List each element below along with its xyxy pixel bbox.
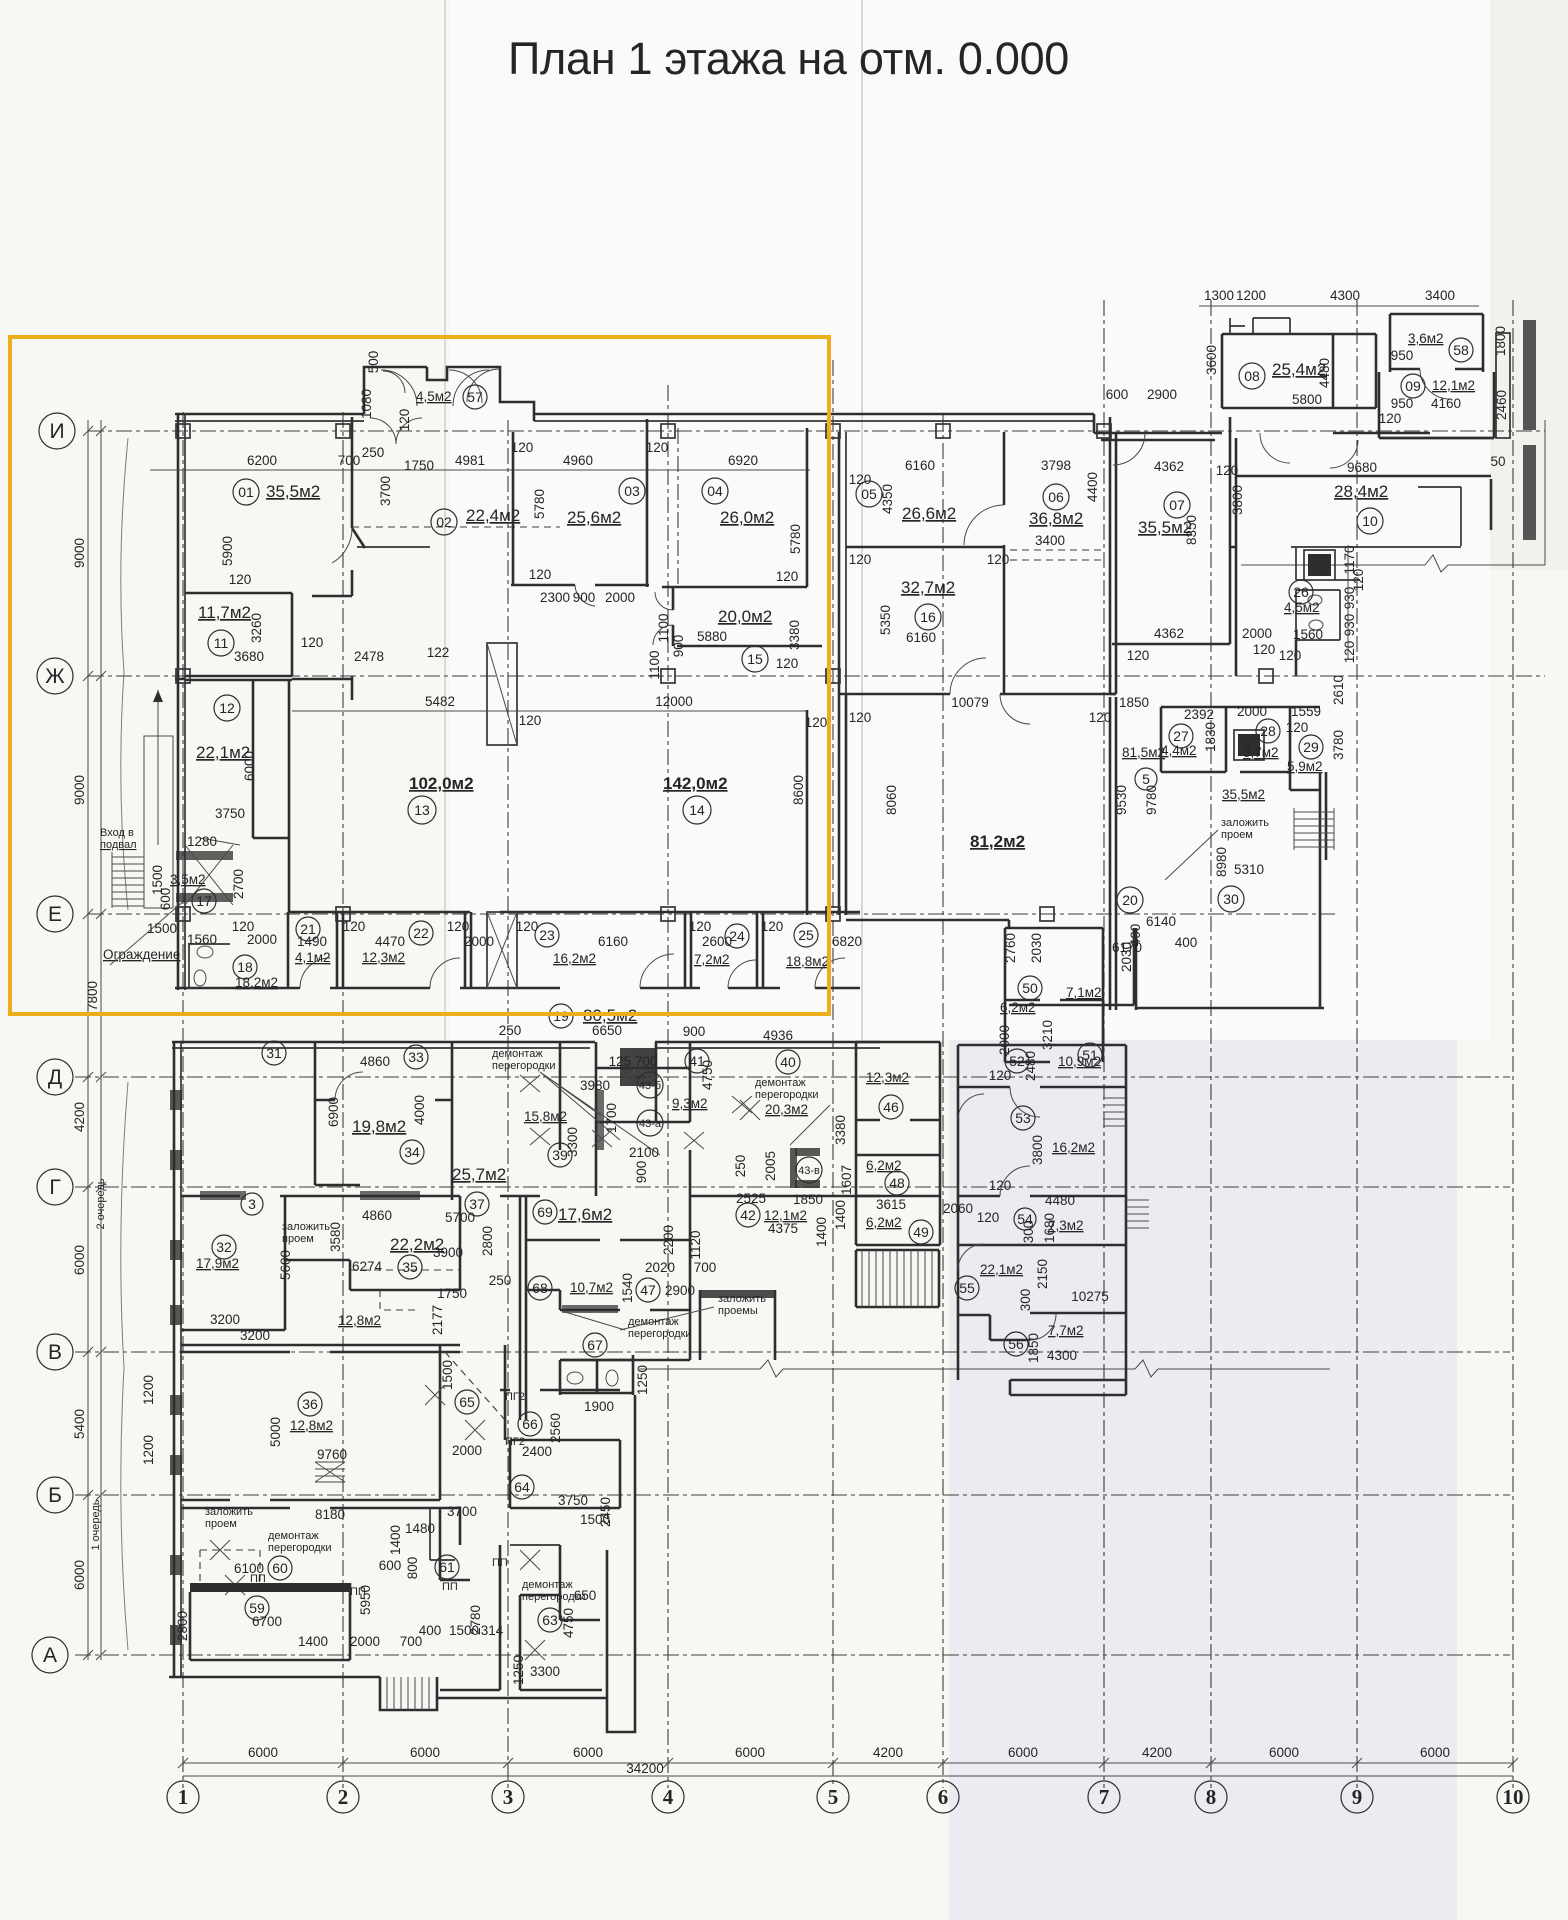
- axis circle В: [37, 1334, 73, 1370]
- wing inner wall x690: [690, 1042, 880, 1196]
- svg-text:16,2м2: 16,2м2: [1052, 1140, 1095, 1155]
- svg-text:120: 120: [761, 919, 784, 934]
- axis 1 line: [182, 412, 184, 1788]
- room 01 right wall: [352, 417, 365, 596]
- room 20 labels: [1117, 887, 1143, 913]
- bottom wall of rooms 16/06: [839, 693, 1116, 696]
- room 33 labels: [404, 1045, 428, 1069]
- svg-text:перегородки: перегородки: [755, 1089, 819, 1101]
- axis 5 line: [832, 360, 834, 1788]
- svg-text:36,8м2: 36,8м2: [1029, 509, 1083, 528]
- svg-text:1250: 1250: [635, 1365, 650, 1395]
- svg-text:2000: 2000: [605, 590, 635, 605]
- svg-text:35,5м2: 35,5м2: [1222, 787, 1265, 802]
- svg-text:6650: 6650: [592, 1023, 622, 1038]
- door arcs lower right block: [958, 1087, 1056, 1340]
- svg-text:10275: 10275: [1071, 1289, 1109, 1304]
- room 04 labels: [702, 478, 728, 504]
- svg-text:26: 26: [1293, 584, 1309, 600]
- svg-text:09: 09: [1405, 378, 1421, 394]
- svg-text:6170: 6170: [1112, 940, 1142, 955]
- svg-text:заложить: заложить: [282, 1221, 330, 1233]
- svg-text:36: 36: [302, 1396, 318, 1412]
- svg-text:34200: 34200: [626, 1761, 664, 1776]
- svg-text:23: 23: [539, 927, 555, 943]
- axis circle Г: [37, 1169, 73, 1205]
- room 61 walls: [440, 1508, 500, 1690]
- svg-text:1400: 1400: [298, 1634, 328, 1649]
- svg-text:120: 120: [805, 715, 828, 730]
- svg-text:500: 500: [366, 351, 381, 374]
- svg-text:3380: 3380: [833, 1115, 848, 1145]
- room 08 walls: [1222, 334, 1376, 408]
- demolition X marks: [520, 1075, 752, 1149]
- wall on axis В: [181, 1345, 460, 1352]
- room 04 left dashed boundary: [677, 428, 679, 588]
- svg-text:6000: 6000: [1420, 1745, 1450, 1760]
- svg-text:Ограждение: Ограждение: [103, 947, 180, 962]
- svg-text:1500: 1500: [449, 1623, 479, 1638]
- svg-text:650: 650: [574, 1588, 597, 1603]
- svg-text:5: 5: [828, 1785, 839, 1809]
- svg-text:120: 120: [1279, 648, 1302, 663]
- svg-text:600: 600: [1106, 387, 1129, 402]
- svg-text:Е: Е: [48, 903, 62, 926]
- svg-text:2 очередь: 2 очередь: [95, 1178, 107, 1229]
- svg-text:1480: 1480: [405, 1521, 435, 1536]
- svg-text:16,2м2: 16,2м2: [553, 951, 596, 966]
- svg-text:перегородки: перегородки: [492, 1060, 556, 1072]
- corridor double wall right of orange box: [838, 432, 841, 915]
- axis Б line: [75, 1494, 1510, 1496]
- svg-text:2005: 2005: [763, 1151, 778, 1181]
- svg-text:120: 120: [849, 710, 872, 725]
- svg-text:2100: 2100: [629, 1145, 659, 1160]
- room 41 labels: [685, 1049, 709, 1073]
- svg-text:250: 250: [499, 1023, 522, 1038]
- svg-text:5: 5: [1142, 771, 1150, 787]
- svg-text:4375: 4375: [768, 1221, 798, 1236]
- top dim row of right wing: [1199, 305, 1479, 307]
- svg-text:5880: 5880: [697, 629, 727, 644]
- svg-text:17,9м2: 17,9м2: [196, 1256, 239, 1271]
- svg-text:67: 67: [587, 1337, 603, 1353]
- svg-text:демонтаж: демонтаж: [522, 1579, 573, 1591]
- axis 9 line: [1356, 300, 1358, 1788]
- outer top wall left segment: [175, 413, 364, 416]
- room 03 walls: [511, 419, 649, 587]
- room 01 door arc: [332, 528, 352, 563]
- room 06 labels: [1043, 484, 1069, 510]
- svg-text:1400: 1400: [388, 1525, 403, 1555]
- svg-text:План 1 этажа на отм. 0.000: План 1 этажа на отм. 0.000: [508, 33, 1069, 84]
- axis circle Д: [37, 1059, 73, 1095]
- svg-text:6000: 6000: [72, 1560, 87, 1590]
- svg-text:3380: 3380: [787, 620, 802, 650]
- step wall over axis 7: [1094, 414, 1222, 440]
- svg-text:12,3м2: 12,3м2: [362, 950, 405, 965]
- svg-text:2000: 2000: [464, 934, 494, 949]
- top wall of rooms 21-25 row: [288, 911, 860, 914]
- svg-text:68: 68: [532, 1280, 548, 1296]
- svg-text:26,0м2: 26,0м2: [720, 508, 774, 527]
- block bottom steps: [1010, 1380, 1126, 1395]
- svg-text:демонтаж: демонтаж: [755, 1077, 806, 1089]
- svg-text:3680: 3680: [234, 649, 264, 664]
- svg-text:120: 120: [1089, 710, 1112, 725]
- svg-text:заложить: заложить: [718, 1293, 766, 1305]
- svg-text:3: 3: [503, 1785, 514, 1809]
- corridor 02 dashed boundary: [352, 526, 560, 528]
- svg-text:1250: 1250: [511, 1655, 526, 1685]
- wing bottom outline: [169, 1395, 635, 1732]
- axis circle А: [32, 1637, 68, 1673]
- rooms 50/51 box: [1005, 928, 1103, 1062]
- svg-text:3980: 3980: [580, 1078, 610, 1093]
- axis И line: [88, 430, 1545, 432]
- svg-text:950: 950: [1391, 348, 1414, 363]
- left wall pilasters: [170, 1090, 182, 1645]
- room 21 labels: [296, 917, 320, 941]
- svg-text:22,1м2: 22,1м2: [980, 1262, 1023, 1277]
- svg-text:10: 10: [1362, 513, 1378, 529]
- svg-text:6274: 6274: [352, 1259, 383, 1274]
- room 50 labels: [1018, 976, 1042, 1000]
- svg-text:102,0м2: 102,0м2: [409, 774, 474, 793]
- svg-text:заложить: заложить: [1221, 817, 1269, 829]
- svg-text:35: 35: [402, 1259, 418, 1275]
- svg-text:5700: 5700: [445, 1210, 475, 1225]
- svg-text:1200: 1200: [141, 1375, 156, 1405]
- svg-text:И: И: [49, 420, 64, 443]
- svg-text:1750: 1750: [404, 458, 434, 473]
- svg-text:2000: 2000: [247, 932, 277, 947]
- room 11 labels: [208, 630, 234, 656]
- room 64 walls: [510, 1440, 620, 1508]
- staircase block: [856, 1250, 939, 1307]
- svg-text:2800: 2800: [480, 1226, 495, 1256]
- svg-text:1100: 1100: [656, 613, 671, 642]
- svg-text:314: 314: [481, 1623, 504, 1638]
- svg-text:142,0м2: 142,0м2: [663, 774, 728, 793]
- room 03 labels: [619, 478, 645, 504]
- room 26 labels: [1289, 580, 1313, 604]
- svg-text:2: 2: [338, 1785, 349, 1809]
- svg-text:проем: проем: [205, 1518, 237, 1530]
- svg-text:600: 600: [158, 888, 173, 911]
- rooms 46/48/49 block walls: [856, 1042, 940, 1245]
- svg-text:3580: 3580: [328, 1222, 343, 1252]
- svg-text:6000: 6000: [1008, 1745, 1038, 1760]
- room 06/07 dividing wall: [1110, 417, 1116, 694]
- svg-text:6000: 6000: [248, 1745, 278, 1760]
- svg-text:4960: 4960: [563, 453, 593, 468]
- room 66 labels: [518, 1412, 542, 1436]
- svg-text:3615: 3615: [876, 1197, 906, 1212]
- svg-text:3260: 3260: [249, 613, 264, 643]
- svg-text:400: 400: [1175, 935, 1198, 950]
- svg-text:66: 66: [522, 1416, 538, 1432]
- svg-text:6000: 6000: [410, 1745, 440, 1760]
- svg-text:3: 3: [248, 1196, 256, 1212]
- room 32 walls: [181, 1196, 285, 1330]
- svg-text:26,6м2: 26,6м2: [902, 504, 956, 523]
- axis В line: [75, 1351, 1510, 1353]
- svg-text:3400: 3400: [1425, 288, 1455, 303]
- outer top wall right segment: [534, 413, 1094, 416]
- svg-text:50: 50: [1022, 980, 1038, 996]
- svg-text:32,7м2: 32,7м2: [901, 578, 955, 597]
- svg-text:6140: 6140: [1146, 914, 1176, 929]
- svg-text:3,6м2: 3,6м2: [1408, 331, 1444, 346]
- svg-text:10079: 10079: [951, 695, 989, 710]
- svg-text:4,5м2: 4,5м2: [416, 389, 452, 404]
- axis Д line: [75, 1076, 1510, 1078]
- svg-text:18,2м2: 18,2м2: [235, 975, 278, 990]
- svg-text:3,7м2: 3,7м2: [1243, 745, 1279, 760]
- room 11 walls: [185, 617, 292, 676]
- svg-text:600: 600: [379, 1558, 402, 1573]
- room 37 labels: [465, 1192, 489, 1216]
- svg-text:122: 122: [427, 645, 450, 660]
- room 52 walls: [958, 1086, 1126, 1089]
- stairs in block: [1294, 808, 1334, 850]
- svg-text:3300: 3300: [530, 1664, 560, 1679]
- axis Ж line: [88, 675, 1545, 677]
- svg-text:950: 950: [1391, 396, 1414, 411]
- svg-text:2000: 2000: [452, 1443, 482, 1458]
- left brace marks: [121, 438, 128, 910]
- svg-text:18,8м2: 18,8м2: [786, 954, 829, 969]
- corner walls right of corridor: [1110, 547, 1236, 694]
- svg-text:120: 120: [776, 569, 799, 584]
- room 59 walls (dark): [190, 1583, 350, 1592]
- svg-text:42: 42: [740, 1207, 756, 1223]
- room 10 inner walls: [1291, 487, 1461, 547]
- rooms 39/43 demolition cluster: [620, 1048, 656, 1086]
- room 07 walls: [1112, 417, 1230, 644]
- svg-text:11,7м2: 11,7м2: [198, 603, 251, 622]
- svg-text:9000: 9000: [72, 775, 87, 805]
- room 40 labels: [776, 1050, 800, 1074]
- svg-text:15: 15: [747, 651, 763, 667]
- svg-text:61: 61: [439, 1559, 455, 1575]
- svg-text:120: 120: [1379, 411, 1402, 426]
- svg-text:20: 20: [1122, 892, 1138, 908]
- svg-text:30: 30: [1223, 891, 1239, 907]
- wing left outer wall: [173, 1042, 176, 1677]
- room 18 labels: [233, 955, 257, 979]
- svg-text:17: 17: [196, 893, 212, 909]
- svg-text:3600: 3600: [1204, 345, 1219, 375]
- svg-text:5950: 5950: [358, 1585, 373, 1615]
- svg-text:120: 120: [1127, 648, 1150, 663]
- svg-text:120: 120: [776, 656, 799, 671]
- svg-text:2480: 2480: [1023, 1051, 1038, 1081]
- room 28 shower unit: [1238, 734, 1260, 756]
- svg-text:12,8м2: 12,8м2: [290, 1418, 333, 1433]
- svg-text:4362: 4362: [1154, 626, 1184, 641]
- svg-text:4860: 4860: [360, 1054, 390, 1069]
- room 67 labels: [583, 1333, 607, 1357]
- svg-text:33: 33: [408, 1049, 424, 1065]
- svg-text:120: 120: [849, 552, 872, 567]
- svg-text:подвал: подвал: [100, 839, 137, 851]
- svg-text:65: 65: [459, 1394, 475, 1410]
- svg-text:1607: 1607: [839, 1165, 854, 1195]
- axis circle И: [39, 413, 75, 449]
- svg-text:3800: 3800: [1030, 1135, 1045, 1165]
- svg-text:120: 120: [1253, 642, 1276, 657]
- svg-text:6000: 6000: [735, 1745, 765, 1760]
- svg-text:2900: 2900: [1147, 387, 1177, 402]
- svg-text:3200: 3200: [210, 1312, 240, 1327]
- svg-text:2300: 2300: [540, 590, 570, 605]
- svg-text:1300: 1300: [1204, 288, 1234, 303]
- svg-text:13: 13: [414, 802, 430, 818]
- room 07 labels: [1164, 492, 1190, 518]
- svg-text:250: 250: [733, 1155, 748, 1178]
- rooms 52-56 block outline: [958, 1045, 1126, 1380]
- svg-text:64: 64: [514, 1479, 530, 1495]
- svg-text:1100: 1100: [647, 650, 662, 679]
- svg-text:Вход в: Вход в: [100, 827, 134, 839]
- svg-text:6160: 6160: [905, 458, 935, 473]
- axis circle Е: [37, 896, 73, 932]
- svg-text:07: 07: [1169, 497, 1185, 513]
- svg-text:120: 120: [301, 635, 324, 650]
- svg-text:7,2м2: 7,2м2: [694, 952, 730, 967]
- svg-text:8: 8: [1206, 1785, 1217, 1809]
- axis intersection squares row Ж: [176, 669, 1273, 683]
- svg-text:57: 57: [467, 389, 483, 405]
- wall on axis Б: [181, 1507, 460, 1510]
- room 58 walls: [1390, 314, 1483, 372]
- room 47 labels: [636, 1278, 660, 1302]
- svg-text:9: 9: [1352, 1785, 1363, 1809]
- svg-text:28: 28: [1260, 723, 1276, 739]
- room 42 labels: [736, 1203, 760, 1227]
- svg-text:1850: 1850: [1119, 695, 1149, 710]
- svg-text:проем: проем: [282, 1233, 314, 1245]
- svg-text:43-а: 43-а: [639, 1118, 662, 1130]
- svg-text:63: 63: [542, 1612, 558, 1628]
- svg-text:34: 34: [404, 1144, 420, 1160]
- svg-text:18: 18: [237, 959, 253, 975]
- svg-text:3900: 3900: [433, 1245, 463, 1260]
- svg-text:6900: 6900: [326, 1097, 341, 1127]
- svg-text:5900: 5900: [220, 536, 235, 566]
- svg-text:7800: 7800: [85, 981, 100, 1011]
- room 17 hatched walls: [176, 851, 233, 860]
- svg-text:1490: 1490: [297, 934, 327, 949]
- room 25 labels: [794, 923, 818, 947]
- room 32 labels: [212, 1235, 236, 1259]
- svg-text:3,5м2: 3,5м2: [170, 872, 206, 887]
- room 53 walls: [958, 1195, 1126, 1198]
- wall under rooms 08/09: [1333, 433, 1494, 438]
- svg-text:2560: 2560: [548, 1413, 563, 1443]
- svg-text:400: 400: [419, 1623, 442, 1638]
- svg-text:4160: 4160: [1431, 396, 1461, 411]
- room 67 walls (wc): [560, 1355, 633, 1395]
- svg-text:49: 49: [913, 1224, 929, 1240]
- room 43-в hatched walls: [795, 1148, 820, 1156]
- room 30 walls: [1136, 772, 1326, 1010]
- svg-text:12,3м2: 12,3м2: [866, 1070, 909, 1085]
- svg-text:3780: 3780: [1331, 730, 1346, 760]
- svg-text:1 очередь: 1 очередь: [90, 1499, 102, 1550]
- svg-text:55: 55: [959, 1280, 975, 1296]
- svg-text:15,8м2: 15,8м2: [524, 1109, 567, 1124]
- room 01 bottom wall: [185, 593, 352, 617]
- svg-text:5482: 5482: [425, 694, 455, 709]
- svg-text:6: 6: [938, 1785, 949, 1809]
- svg-text:1280: 1280: [187, 834, 217, 849]
- svg-text:ПП: ПП: [492, 1557, 508, 1569]
- svg-text:29: 29: [1303, 739, 1319, 755]
- outer left wall: [177, 413, 180, 990]
- svg-text:14: 14: [689, 802, 705, 818]
- svg-text:250: 250: [489, 1273, 512, 1288]
- svg-text:50: 50: [1490, 454, 1505, 469]
- svg-text:19,8м2: 19,8м2: [352, 1117, 406, 1136]
- svg-text:4750: 4750: [700, 1060, 715, 1090]
- axis А line: [75, 1654, 1510, 1656]
- room 59 labels: [245, 1596, 269, 1620]
- room 36 walls: [181, 1345, 440, 1500]
- svg-text:2000: 2000: [1237, 704, 1267, 719]
- svg-text:5350: 5350: [878, 605, 893, 635]
- bottom dimension line: [183, 1762, 1513, 1764]
- svg-text:5800: 5800: [1292, 392, 1322, 407]
- room 69 labels: [533, 1200, 557, 1224]
- svg-text:120: 120: [977, 1210, 1000, 1225]
- svg-text:120: 120: [646, 440, 669, 455]
- svg-text:120: 120: [849, 472, 872, 487]
- svg-text:120: 120: [989, 1068, 1012, 1083]
- svg-text:перегородки: перегородки: [628, 1328, 692, 1340]
- axis 4 line: [667, 385, 669, 1788]
- svg-text:2150: 2150: [1035, 1259, 1050, 1289]
- svg-text:2900: 2900: [665, 1283, 695, 1298]
- svg-text:ПП: ПП: [442, 1581, 458, 1593]
- axis 7 line: [1103, 300, 1105, 1788]
- svg-text:35,5м2: 35,5м2: [266, 482, 320, 501]
- svg-text:1559: 1559: [1291, 704, 1321, 719]
- partitions of rooms 21-25: [288, 912, 763, 988]
- axis 2 line: [342, 412, 344, 1788]
- axis 8 line: [1210, 300, 1212, 1788]
- svg-text:120: 120: [987, 552, 1010, 567]
- rooms 27/28/29 block walls: [1161, 707, 1320, 790]
- axis circle Ж: [37, 658, 73, 694]
- svg-text:120: 120: [229, 572, 252, 587]
- svg-text:проем: проем: [1221, 829, 1253, 841]
- room 12 walls: [185, 680, 292, 913]
- room 35 walls: [285, 1196, 460, 1290]
- svg-text:А: А: [43, 1644, 57, 1667]
- svg-text:перегородки: перегородки: [268, 1542, 332, 1554]
- svg-text:120: 120: [1351, 569, 1366, 592]
- svg-text:10: 10: [1503, 1785, 1524, 1809]
- svg-text:47: 47: [640, 1282, 656, 1298]
- svg-text:6820: 6820: [832, 934, 862, 949]
- svg-text:1080: 1080: [359, 389, 374, 419]
- svg-text:9680: 9680: [1347, 460, 1377, 475]
- entrance porch to basement: [144, 736, 173, 908]
- hatched wall pieces on Г: [200, 1191, 246, 1200]
